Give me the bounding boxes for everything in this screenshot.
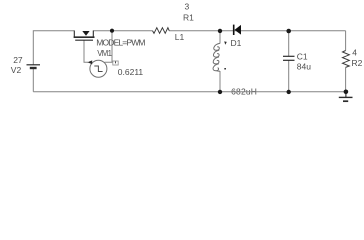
wire C1 branch top [288,31,290,56]
step marker box [113,61,118,65]
svg-text:3: 3 [185,2,190,12]
node dot C1 top [286,29,291,34]
wire right column bottom [345,68,347,92]
node dot L top [218,29,222,33]
svg-text:L1: L1 [175,32,185,42]
svg-text:84u: 84u [297,62,311,72]
svg-text:R2: R2 [352,58,363,68]
battery V2 [27,65,41,68]
svg-text:MODEL=PWM: MODEL=PWM [96,38,145,48]
transistor M1 [74,31,95,41]
capacitor C1 [283,56,295,60]
wire L branch bottom [219,71,221,92]
node dot C1 bottom [287,90,291,94]
resistor R1 [153,28,170,34]
resistor R2 [343,51,350,68]
wire right column top [345,31,347,51]
svg-text:C1: C1 [297,52,308,62]
svg-text:0.6211: 0.6211 [118,67,144,77]
wire top rail left segment [33,31,74,65]
svg-text:27: 27 [13,55,23,65]
pulse source waveform glyph [94,66,102,72]
svg-text:VM1: VM1 [97,49,111,58]
wire top rail from R1 to right corner [169,30,346,32]
wire top rail from mosfet source to R1 [93,30,152,32]
node dot L bottom [218,90,222,94]
node dot ground [344,90,349,95]
inductor loops 682uH [213,43,220,71]
wire bottom rail [33,91,345,93]
node dot M1 source / VM1 [110,29,114,33]
pulse source VM1 circle [90,60,107,77]
transistor M1 arrow [82,31,89,36]
wire L branch top [219,31,221,44]
svg-text:4: 4 [352,48,357,58]
inductor polarity dot [224,41,227,44]
svg-text:R1: R1 [183,13,194,23]
wire left column below battery [32,69,34,92]
wire C1 branch bottom [288,61,290,92]
ground [339,92,353,102]
diode D1 [234,25,241,35]
svg-text:V2: V2 [11,65,22,75]
wire VM1 right lead [104,31,112,63]
wire gate lead down [84,41,88,63]
svg-text:D1: D1 [231,38,242,48]
pulse source polarity arrow [87,60,92,64]
